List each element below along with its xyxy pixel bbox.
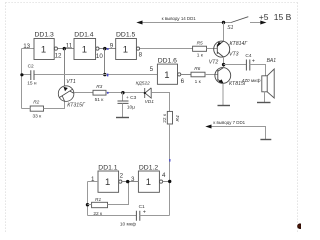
capacitor C1 <box>136 211 139 221</box>
svg-text:10µ: 10µ <box>127 105 135 111</box>
wire: VD1 to R4 <box>151 93 169 112</box>
inverter DD1.1 <box>98 171 122 192</box>
transistor VT2 <box>215 68 231 84</box>
wire: R2 to VT1 emitter lead <box>44 101 65 108</box>
wire: DD1.6 out to R6 <box>181 74 191 76</box>
capacitor C2 <box>31 70 34 80</box>
svg-text:DD1.4: DD1.4 <box>74 31 93 38</box>
svg-text:BA1: BA1 <box>267 58 277 64</box>
svg-text:12: 12 <box>55 53 62 60</box>
svg-text:4: 4 <box>162 172 166 179</box>
resistor R1 <box>92 202 108 207</box>
node: R1 left junction <box>86 203 89 206</box>
resistor R5 <box>193 46 207 51</box>
wire: R5 to VT3 base <box>207 48 218 50</box>
svg-text:DD1.3: DD1.3 <box>35 31 54 38</box>
wire: DD1.2 out to vertical <box>163 181 170 183</box>
ground: VT2 <box>218 105 231 107</box>
svg-text:R5: R5 <box>197 40 203 46</box>
wire: VT2 emitter to ground <box>222 83 224 105</box>
wire: R3 to VD1 <box>106 92 145 94</box>
svg-text:1: 1 <box>105 177 110 188</box>
resistor R6 <box>191 72 205 77</box>
node: R3/C3/VD1 junction <box>121 91 124 94</box>
svg-text:КТ814Г: КТ814Г <box>230 41 249 47</box>
VT1 arrow <box>64 87 68 91</box>
wire: DD1.4 out to DD1.5 in <box>99 48 116 50</box>
transistor VT3 <box>214 41 230 57</box>
node: amp output junction <box>222 63 225 66</box>
VT2 emitter arrow (NPN) <box>218 79 223 83</box>
svg-text:КТ315Г: КТ315Г <box>67 102 86 108</box>
node: C2 left junction <box>20 73 23 76</box>
wire: DD1.5 out to R5 <box>140 48 193 50</box>
svg-text:КД522: КД522 <box>136 80 151 86</box>
wire: left vertical rail <box>21 49 23 109</box>
ground: pin 7 DD1 <box>260 139 271 141</box>
svg-text:к выводу 7 DD1: к выводу 7 DD1 <box>213 120 245 125</box>
inverter DD1.6 <box>157 64 180 84</box>
wire: rail node to C2 left plate <box>22 74 31 76</box>
svg-text:R2: R2 <box>33 100 39 106</box>
resistor R3 <box>93 90 106 95</box>
ground: BA1 <box>257 102 271 104</box>
wire: R6 to VT2 base <box>205 74 218 76</box>
wire: rail to R2 <box>22 108 31 110</box>
inverter DD1.5 <box>116 39 140 60</box>
svg-text:470 мкф: 470 мкф <box>242 78 261 84</box>
svg-text:VT1: VT1 <box>66 79 76 85</box>
blue artifact ticks <box>169 159 171 162</box>
svg-text:13: 13 <box>23 43 30 50</box>
svg-text:+ C3: + C3 <box>126 95 137 101</box>
wire: node down to VT3 emitter <box>223 23 225 42</box>
ground: C3 <box>116 117 129 119</box>
node: DD1.4 output junction <box>103 47 106 50</box>
diode VD1 <box>145 88 152 98</box>
svg-text:10 мкф: 10 мкф <box>120 221 136 227</box>
svg-text:1: 1 <box>41 44 46 55</box>
svg-text:DD1.2: DD1.2 <box>139 164 158 171</box>
svg-text:R4: R4 <box>175 115 181 121</box>
wire/arrow: to pin 7 DD1 <box>209 127 266 140</box>
wire: BA1 to ground <box>264 92 266 102</box>
svg-text:10: 10 <box>96 53 103 60</box>
svg-text:2: 2 <box>120 172 124 179</box>
svg-text:+: + <box>252 59 255 65</box>
svg-text:R3: R3 <box>96 84 102 90</box>
svg-text:9: 9 <box>110 43 114 50</box>
svg-text:DD1.1: DD1.1 <box>98 164 117 171</box>
svg-text:VT3: VT3 <box>229 51 239 57</box>
power rail: arrow to pin 14 DD1 <box>140 22 231 24</box>
switch S1 <box>231 17 248 23</box>
node: DD1.2 output junction <box>168 180 171 183</box>
inverter DD1.2 <box>138 171 162 192</box>
svg-text:1 к: 1 к <box>197 53 204 59</box>
svg-text:+: + <box>143 209 146 215</box>
wire: DD1.1 out to DD1.2 in <box>122 181 138 183</box>
resistor R2 <box>30 106 43 111</box>
node: on DD1.6 input line <box>103 73 106 76</box>
svg-text:DD1.5: DD1.5 <box>116 31 135 38</box>
wire: DD1.1 input from left <box>88 181 99 183</box>
svg-text:51 к: 51 к <box>95 97 105 103</box>
wire: C4 to BA1 <box>250 65 266 76</box>
node: power rail junction <box>222 21 225 24</box>
wire: output node to C4 <box>224 64 247 66</box>
wire: DD1.3 out to DD1.4 in <box>57 48 74 50</box>
wire: vertical down to DD1.6 input line <box>104 49 106 75</box>
svg-text:1: 1 <box>123 44 128 55</box>
svg-text:33 к: 33 к <box>33 114 43 120</box>
svg-text:15 н: 15 н <box>27 81 37 87</box>
wire: R1 right up to DD1.1 output node <box>108 182 129 205</box>
capacitor C3 <box>122 93 124 102</box>
svg-text:5: 5 <box>150 66 154 73</box>
inverter DD1.3 <box>34 39 58 60</box>
node: DD1.1 output junction <box>126 180 129 183</box>
capacitor C4 <box>246 60 249 71</box>
svg-text:R1: R1 <box>95 197 101 203</box>
svg-text:6: 6 <box>181 78 185 85</box>
svg-text:8: 8 <box>139 52 143 59</box>
svg-text:VT2: VT2 <box>209 59 219 65</box>
svg-text:1: 1 <box>82 44 87 55</box>
svg-text:R6: R6 <box>194 66 200 72</box>
wire: node to R1 <box>88 204 92 206</box>
wire: left vertical down to bottom rail <box>87 182 89 216</box>
svg-text:+5: +5 <box>259 12 269 22</box>
wire: bottom rail <box>88 215 137 217</box>
wire: node down to VT1 <box>64 49 66 87</box>
wire: VT1 to R3 <box>74 92 93 94</box>
svg-text:к выводу 14 DD1: к выводу 14 DD1 <box>162 16 197 21</box>
svg-text:1 к: 1 к <box>195 79 202 85</box>
svg-text:11: 11 <box>66 43 73 50</box>
svg-text:22 к: 22 к <box>162 113 168 123</box>
wire: C1 right to vertical <box>140 215 170 217</box>
svg-text:15 В: 15 В <box>274 12 292 22</box>
wire: C2 right plate to DD1.6 input <box>34 74 157 76</box>
inverter DD1.4 <box>74 39 99 60</box>
VT3 emitter arrow (PNP) <box>217 42 222 48</box>
svg-text:C4: C4 <box>245 53 251 59</box>
svg-text:S1: S1 <box>227 25 233 31</box>
speck (bottom right corner) <box>297 223 303 229</box>
node: DD1.3 output junction <box>63 47 66 50</box>
svg-text:C2: C2 <box>28 64 34 70</box>
svg-text:1: 1 <box>146 177 151 188</box>
svg-text:VD1: VD1 <box>145 99 155 105</box>
svg-text:1: 1 <box>164 70 169 81</box>
wire: VT3 collector to output node <box>223 57 225 68</box>
resistor R4 (vertical) <box>167 111 172 124</box>
speaker BA1 <box>262 69 274 98</box>
svg-text:DD1.6: DD1.6 <box>158 58 177 65</box>
wire: DD1.3 pin13 from left rail <box>22 48 35 50</box>
wire: R4 down to DD1.2 output node <box>169 124 171 216</box>
transistor VT1 <box>58 86 74 102</box>
